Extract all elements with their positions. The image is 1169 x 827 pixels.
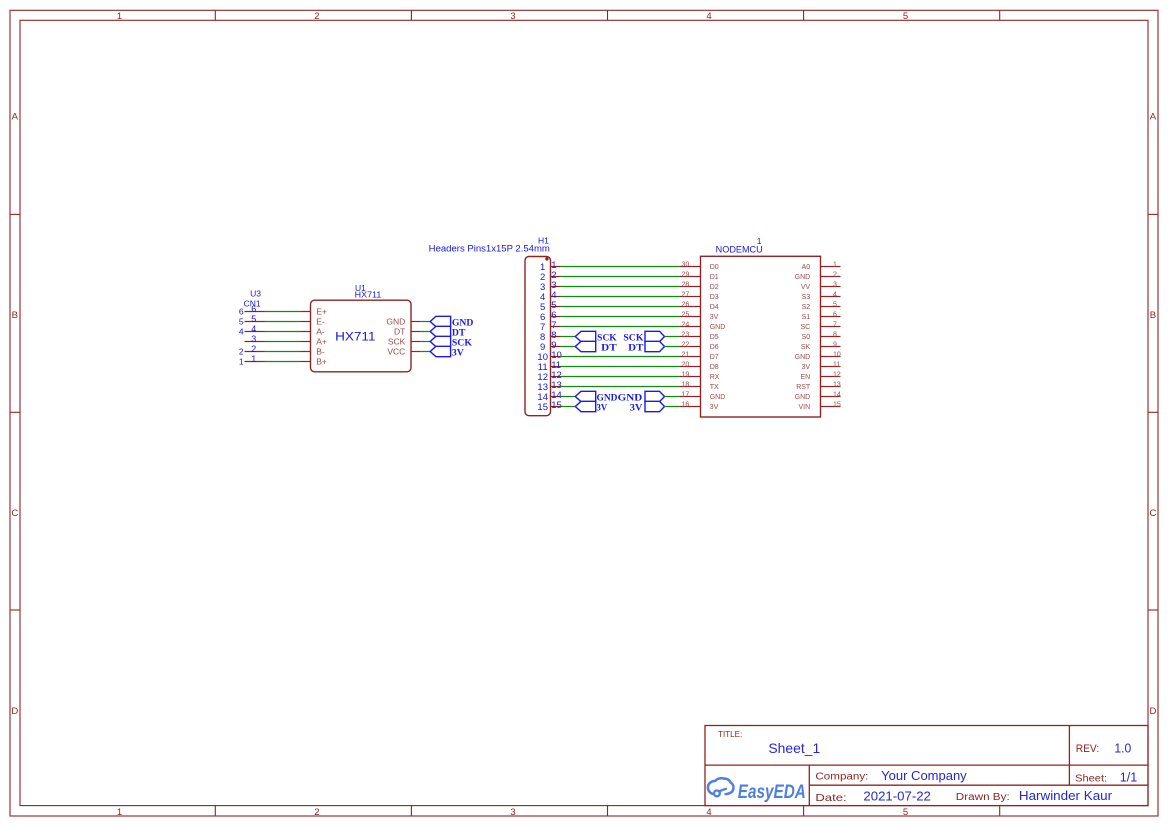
svg-text:VV: VV [801, 284, 811, 291]
U1 pin DT [411, 331, 421, 333]
EasyEDA logo [708, 778, 806, 803]
svg-text:TITLE:: TITLE: [718, 730, 742, 739]
wire H1-2 to NODEMCU D1 [561, 276, 681, 278]
svg-text:1: 1 [239, 357, 244, 367]
H1 pin 6 [551, 316, 561, 318]
svg-text:21: 21 [682, 351, 690, 358]
U1 pin B+ [301, 361, 311, 363]
svg-text:28: 28 [682, 281, 690, 288]
svg-text:Sheet_1: Sheet_1 [768, 740, 820, 756]
svg-text:4: 4 [251, 324, 256, 334]
svg-text:30: 30 [682, 261, 690, 268]
frame tick top 1 [214, 10, 216, 20]
svg-text:A: A [1150, 112, 1157, 123]
NODEMCU pin 8 (S0) [821, 336, 841, 338]
CN1 pin 5 [245, 321, 265, 323]
svg-text:Your Company: Your Company [881, 768, 967, 783]
svg-text:8: 8 [833, 331, 837, 338]
svg-text:1.0: 1.0 [1114, 741, 1131, 755]
svg-text:24: 24 [682, 321, 690, 328]
svg-text:GND: GND [795, 394, 811, 401]
svg-text:SCK: SCK [623, 332, 643, 342]
H1 pin 11 [551, 366, 561, 368]
wire net flag SCK to NODEMCU [665, 336, 681, 338]
svg-text:Headers Pins1x15P 2.54mm: Headers Pins1x15P 2.54mm [429, 244, 550, 254]
svg-text:3: 3 [833, 281, 837, 288]
svg-text:A-: A- [316, 327, 325, 337]
svg-text:C: C [1149, 508, 1156, 519]
svg-text:3: 3 [251, 334, 256, 344]
NODEMCU pin 14 (GND) [821, 396, 841, 398]
svg-text:29: 29 [682, 271, 690, 278]
svg-text:GND: GND [795, 354, 811, 361]
svg-text:19: 19 [682, 371, 690, 378]
frame tick left 2 [10, 411, 20, 413]
CN1 pin 6 [245, 311, 265, 313]
title block divider vertical 1 [808, 765, 810, 806]
U1 pin GND [411, 321, 421, 323]
title block divider vertical 2 [1068, 726, 1070, 786]
frame tick right 3 [1148, 609, 1158, 611]
svg-text:15: 15 [551, 400, 562, 411]
NODEMCU pin 12 (EN) [821, 376, 841, 378]
NODEMCU pin 23 (D5) [680, 336, 701, 338]
svg-text:GND: GND [795, 274, 811, 281]
H1 pin 10 [551, 356, 561, 358]
frame tick bottom 4 [803, 806, 805, 816]
net flag GND (left) [575, 391, 595, 401]
svg-text:D8: D8 [710, 364, 719, 371]
svg-text:GND: GND [710, 324, 726, 331]
NODEMCU pin 1 (A0) [821, 266, 841, 268]
net flag DT [430, 326, 450, 336]
svg-text:27: 27 [682, 291, 690, 298]
svg-text:Harwinder Kaur: Harwinder Kaur [1019, 789, 1112, 803]
svg-text:5: 5 [903, 807, 908, 818]
NODEMCU pin 4 (S3) [821, 296, 841, 298]
svg-text:GND: GND [452, 317, 474, 327]
svg-text:GND: GND [386, 317, 405, 327]
svg-text:A: A [12, 112, 19, 123]
NODEMCU pin 30 (D0) [680, 266, 701, 268]
svg-text:3: 3 [510, 807, 515, 818]
svg-text:SC: SC [800, 324, 810, 331]
svg-text:S1: S1 [802, 314, 811, 321]
wire CN1-2 to U1 B- [265, 351, 301, 353]
svg-text:10: 10 [833, 351, 841, 358]
svg-text:RST: RST [796, 384, 811, 391]
header H1 [429, 236, 562, 416]
U1 pin E- [301, 321, 311, 323]
svg-text:1: 1 [833, 261, 837, 268]
wire H1-3 to NODEMCU D2 [561, 286, 681, 288]
U1 pin VCC [411, 351, 421, 353]
wire H1-9 to net flag DT [561, 346, 576, 348]
svg-text:1: 1 [117, 11, 122, 22]
svg-text:D7: D7 [710, 354, 719, 361]
svg-text:C: C [11, 508, 18, 519]
svg-text:17: 17 [682, 391, 690, 398]
NODEMCU pin 6 (S1) [821, 316, 841, 318]
NODEMCU pin 7 (SC) [821, 326, 841, 328]
svg-text:DT: DT [394, 327, 405, 337]
svg-text:5: 5 [903, 11, 908, 22]
svg-text:Company:: Company: [815, 770, 868, 782]
svg-text:A+: A+ [316, 337, 327, 347]
svg-text:DT: DT [601, 342, 617, 352]
NODEMCU pin 13 (RST) [821, 386, 841, 388]
svg-text:RX: RX [710, 374, 720, 381]
svg-text:DT: DT [452, 327, 466, 337]
svg-text:EN: EN [800, 374, 810, 381]
svg-text:1: 1 [251, 354, 256, 364]
svg-text:VCC: VCC [387, 347, 405, 357]
frame tick right 1 [1148, 213, 1158, 215]
title block divider horizontal 2 [809, 784, 1148, 786]
svg-text:12: 12 [833, 371, 841, 378]
svg-text:Sheet:: Sheet: [1075, 773, 1107, 785]
svg-text:25: 25 [682, 311, 690, 318]
svg-text:D0: D0 [710, 264, 719, 271]
svg-text:D5: D5 [710, 334, 719, 341]
svg-text:DT: DT [628, 342, 643, 352]
frame tick bottom 5 [999, 806, 1001, 816]
wire H1-10 to NODEMCU D7 [561, 356, 681, 358]
H1 pin 12 [551, 376, 561, 378]
svg-text:1/1: 1/1 [1120, 770, 1138, 784]
svg-text:16: 16 [682, 401, 690, 408]
wire H1-4 to NODEMCU D3 [561, 296, 681, 298]
svg-text:23: 23 [682, 331, 690, 338]
svg-text:B: B [1150, 310, 1156, 321]
title block [705, 726, 1148, 806]
H1 origin dot [545, 257, 548, 260]
svg-text:Drawn By:: Drawn By: [956, 792, 1010, 803]
H1 pin 7 [551, 326, 561, 328]
U1 pin SCK [411, 341, 421, 343]
svg-text:SCK: SCK [452, 337, 472, 347]
svg-text:U3: U3 [250, 288, 261, 298]
svg-text:3: 3 [510, 11, 515, 22]
svg-text:Date:: Date: [815, 792, 846, 804]
NODEMCU pin 3 (VV) [821, 286, 841, 288]
wire H1-11 to NODEMCU D8 [561, 366, 681, 368]
NODEMCU pin 28 (D2) [680, 286, 701, 288]
NODEMCU pin 18 (TX) [680, 386, 701, 388]
wire net flag 3V to NODEMCU [665, 406, 681, 408]
H1 pin 15 [551, 406, 561, 408]
svg-text:3V: 3V [710, 404, 719, 411]
NODEMCU pin 2 (GND) [821, 276, 841, 278]
frame tick top 4 [803, 10, 805, 20]
svg-text:HX711: HX711 [335, 331, 375, 343]
frame tick top 2 [410, 10, 412, 20]
svg-text:S2: S2 [802, 304, 811, 311]
svg-text:VIN: VIN [799, 404, 811, 411]
svg-text:3V: 3V [597, 402, 608, 412]
CN1 pin 3 [245, 341, 265, 343]
NODEMCU pin 21 (D7) [680, 356, 701, 358]
wire CN1-3 to U1 A+ [265, 341, 301, 343]
svg-text:D: D [11, 706, 18, 717]
wire CN1-5 to U1 E- [265, 321, 301, 323]
net flag 3V (right) [645, 401, 665, 411]
svg-text:5: 5 [239, 317, 244, 327]
net flag SCK (right) [645, 331, 665, 341]
H1 pin 9 [551, 346, 561, 348]
wire H1-14 to net flag GND [561, 396, 576, 398]
svg-text:S3: S3 [802, 294, 811, 301]
svg-text:6: 6 [251, 304, 256, 314]
frame tick left 3 [10, 609, 20, 611]
wire U1 GND to net flag GND [421, 321, 431, 323]
svg-text:A0: A0 [802, 264, 811, 271]
wire H1-5 to NODEMCU D4 [561, 306, 681, 308]
svg-text:D6: D6 [710, 344, 719, 351]
svg-text:2: 2 [314, 11, 319, 22]
net flag DT (left) [575, 341, 595, 351]
frame tick bottom 2 [410, 806, 412, 816]
svg-text:9: 9 [833, 341, 837, 348]
svg-text:4: 4 [239, 327, 244, 337]
connector U3 CN1 [239, 288, 265, 366]
NODEMCU pin 16 (3V) [680, 406, 701, 408]
svg-text:SCK: SCK [597, 332, 617, 342]
svg-text:5: 5 [251, 314, 256, 324]
svg-text:2: 2 [833, 271, 837, 278]
svg-text:GND: GND [618, 392, 643, 402]
wire net flag DT to NODEMCU [665, 346, 681, 348]
svg-text:3V: 3V [630, 402, 643, 412]
svg-text:E+: E+ [316, 307, 327, 317]
svg-text:D3: D3 [710, 294, 719, 301]
svg-text:1: 1 [117, 807, 122, 818]
svg-text:13: 13 [833, 381, 841, 388]
wire U1 VCC to net flag 3V [421, 351, 431, 353]
svg-text:HX711: HX711 [355, 289, 382, 299]
net flag 3V [430, 346, 450, 356]
svg-text:2: 2 [239, 347, 244, 357]
net flag 3V (left) [575, 401, 595, 411]
svg-text:7: 7 [833, 321, 837, 328]
svg-text:TX: TX [710, 384, 719, 391]
net flag SCK [430, 336, 450, 346]
svg-text:S0: S0 [802, 334, 811, 341]
net flag SCK (left) [575, 331, 595, 341]
svg-text:B-: B- [316, 347, 325, 357]
module NODEMCU [680, 236, 841, 417]
net flag GND [430, 316, 450, 326]
H1 pin 2 [551, 276, 561, 278]
svg-text:D2: D2 [710, 284, 719, 291]
svg-text:B+: B+ [316, 357, 327, 367]
svg-text:GND: GND [597, 392, 619, 402]
wire H1-1 to NODEMCU D0 [561, 266, 681, 268]
EasyEDA logo node circle [714, 791, 720, 797]
EasyEDA logo wire stroke [720, 789, 726, 791]
H1 pin 5 [551, 306, 561, 308]
wire U1 SCK to net flag SCK [421, 341, 431, 343]
svg-text:3V: 3V [802, 364, 811, 371]
U1 pin A+ [301, 341, 311, 343]
svg-text:SCK: SCK [388, 337, 406, 347]
svg-text:11: 11 [833, 361, 840, 368]
wire H1-15 to net flag 3V [561, 406, 576, 408]
NODEMCU pin 9 (SK) [821, 346, 841, 348]
NODEMCU pin 27 (D3) [680, 296, 701, 298]
svg-text:14: 14 [833, 391, 841, 398]
NODEMCU pin 15 (VIN) [821, 406, 841, 408]
svg-text:22: 22 [682, 341, 690, 348]
svg-text:SK: SK [801, 344, 811, 351]
svg-text:15: 15 [833, 401, 841, 408]
NODEMCU pin 29 (D1) [680, 276, 701, 278]
svg-text:4: 4 [706, 807, 711, 818]
H1 pin 1 [551, 266, 561, 268]
NODEMCU pin 17 (GND) [680, 396, 701, 398]
frame tick left 1 [10, 213, 20, 215]
title block divider horizontal 1 [705, 764, 1148, 766]
svg-text:5: 5 [833, 301, 837, 308]
svg-text:D1: D1 [710, 274, 719, 281]
svg-text:20: 20 [682, 361, 690, 368]
NODEMCU pin 24 (GND) [680, 326, 701, 328]
wire CN1-4 to U1 A- [265, 331, 301, 333]
frame tick top 3 [607, 10, 609, 20]
NODEMCU pin 26 (D4) [680, 306, 701, 308]
wire CN1-6 to U1 E+ [265, 311, 301, 313]
NODEMCU pin 5 (S2) [821, 306, 841, 308]
CN1 pin 2 [245, 351, 265, 353]
NODEMCU pin 19 (RX) [680, 376, 701, 378]
net flag DT (right) [645, 341, 665, 351]
svg-text:D4: D4 [710, 304, 719, 311]
frame tick bottom 1 [214, 806, 216, 816]
U1 pin A- [301, 331, 311, 333]
svg-text:6: 6 [239, 307, 244, 317]
svg-text:2021-07-22: 2021-07-22 [863, 789, 931, 804]
svg-text:26: 26 [682, 301, 690, 308]
svg-text:3V: 3V [710, 314, 719, 321]
svg-text:EasyEDA: EasyEDA [738, 781, 806, 803]
U1 pin E+ [301, 311, 311, 313]
frame tick bottom 3 [607, 806, 609, 816]
frame tick right 2 [1148, 411, 1158, 413]
NODEMCU pin 20 (D8) [680, 366, 701, 368]
svg-text:GND: GND [710, 394, 726, 401]
svg-text:15: 15 [537, 402, 548, 413]
svg-text:3V: 3V [452, 347, 465, 357]
IC U1 HX711 [301, 283, 421, 372]
svg-text:NODEMCU: NODEMCU [716, 244, 763, 254]
CN1 pin 4 [245, 331, 265, 333]
svg-text:2: 2 [251, 344, 256, 354]
svg-text:4: 4 [833, 291, 837, 298]
svg-text:E-: E- [316, 317, 325, 327]
NODEMCU pin 25 (3V) [680, 316, 701, 318]
svg-text:4: 4 [706, 11, 711, 22]
frame tick top 5 [999, 10, 1001, 20]
wire H1-13 to NODEMCU TX [561, 386, 681, 388]
wire U1 DT to net flag DT [421, 331, 431, 333]
H1 pin 14 [551, 396, 561, 398]
H1 pin 3 [551, 286, 561, 288]
wire net flag GND to NODEMCU [665, 396, 681, 398]
H1 pin 4 [551, 296, 561, 298]
NODEMCU pin 22 (D6) [680, 346, 701, 348]
svg-text:2: 2 [314, 807, 319, 818]
wire H1-12 to NODEMCU RX [561, 376, 681, 378]
CN1 pin 1 [245, 361, 265, 363]
wire H1-7 to NODEMCU GND [561, 326, 681, 328]
U1 pin B- [301, 351, 311, 353]
net flag GND (right) [645, 391, 665, 401]
NODEMCU pin 11 (3V) [821, 366, 841, 368]
svg-text:6: 6 [833, 311, 837, 318]
svg-text:18: 18 [682, 381, 690, 388]
wire CN1-1 to U1 B+ [265, 361, 301, 363]
svg-text:D: D [1149, 706, 1156, 717]
wire H1-8 to net flag SCK [561, 336, 576, 338]
NODEMCU pin 10 (GND) [821, 356, 841, 358]
svg-text:REV:: REV: [1076, 743, 1100, 755]
svg-text:B: B [12, 310, 18, 321]
H1 pin 8 [551, 336, 561, 338]
wire H1-6 to NODEMCU 3V [561, 316, 681, 318]
H1 pin 13 [551, 386, 561, 388]
